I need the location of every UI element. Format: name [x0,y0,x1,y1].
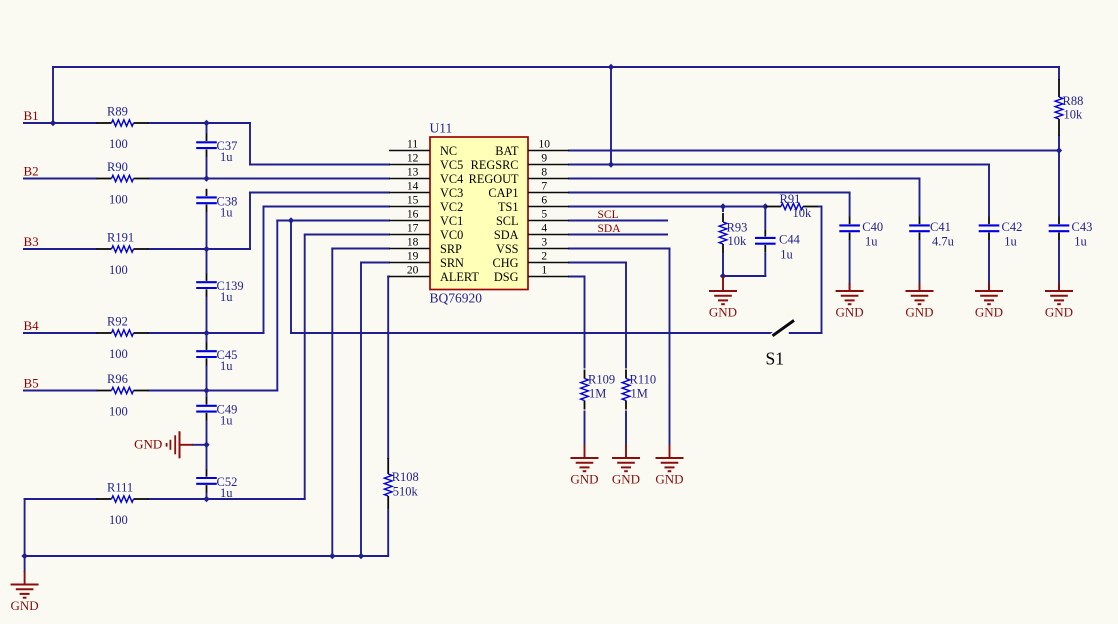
junction VC1/S1 riser [288,217,294,223]
svg-text:R111: R111 [107,481,133,495]
wire REGSRC riser at top x611 [610,66,612,165]
wire C44 top lead from TS1 [764,206,766,230]
svg-text:100: 100 [109,193,128,207]
svg-text:1u: 1u [220,205,233,219]
wire R88 bottom to BAT junction [1058,136,1060,152]
ground under C43 [1045,283,1073,320]
svg-text:10k: 10k [1064,108,1084,122]
resistor R110 (1M) [622,370,656,410]
IC body [430,137,528,290]
capacitor C139 (1u) [196,274,243,305]
ground under C42 [975,283,1003,320]
capacitor C52 (1u) [196,469,237,500]
capacitor C41 (4.7u) [909,217,954,249]
wire B5 to VC1 corner [148,390,279,392]
wire C139-B4 link [206,297,208,334]
pin 2 CHG [528,262,569,264]
svg-text:S1: S1 [766,349,784,369]
junction R93 bottom/C44 bottom [720,273,726,279]
svg-text:SCL: SCL [496,214,519,228]
svg-text:SCL: SCL [598,209,619,221]
svg-text:6: 6 [541,194,547,206]
wire R111 row to VC0 riser [148,498,306,500]
wire SRP row into pin 18 [331,248,390,250]
wire B1 net label stub [23,122,98,124]
wire VC5 riser x250 [249,122,251,165]
svg-text:5: 5 [541,208,547,220]
wire VC3 row into pin 14 [249,192,390,194]
wire C42 bottom to ground [988,240,990,292]
wire C41 bottom to ground [919,240,921,292]
wire bottom ground rail [25,555,390,557]
svg-text:15: 15 [407,194,419,206]
wire VC5 row into pin 12 [249,164,390,166]
junction TS1/C44 [762,203,768,209]
wire R110 to ground [625,411,627,446]
junction B5/C49 [203,387,209,393]
svg-text:100: 100 [109,263,128,277]
svg-text:C41: C41 [930,220,951,234]
svg-text:19: 19 [407,250,419,262]
capacitor C40 (1u) [839,217,883,249]
svg-text:10k: 10k [728,234,748,248]
pin 12 VC5 [389,164,430,166]
power port GND (bar style, left of C52) [134,431,193,458]
svg-text:1M: 1M [589,387,606,401]
wire C37-C38 link [206,157,208,180]
wire R93 junction to C44 bottom [722,275,766,277]
pin 6 TS1 [528,206,569,208]
junction BAT/R88/C43 [1056,147,1062,153]
svg-text:R88: R88 [1063,94,1084,108]
wire VSS drop to ground x669.5 [669,248,671,446]
svg-text:R109: R109 [588,373,615,387]
svg-text:DSG: DSG [494,270,519,284]
wire VC0 row into pin 17 [304,234,390,236]
wire VC3 riser x250 [249,192,251,250]
svg-text:12: 12 [407,152,419,164]
wire C38-B3 link [206,212,208,250]
wire C37 top lead [206,122,208,134]
junction REGSRC row/riser [608,161,614,167]
wire B4-C45 link [206,332,208,343]
pin 11 NC [389,150,430,152]
svg-text:REGSRC: REGSRC [471,158,519,172]
svg-text:1u: 1u [1074,235,1087,249]
wire B3-C139 link [206,248,208,274]
svg-text:REGOUT: REGOUT [469,172,519,186]
wire VSS row pin 3 [568,248,670,250]
wire SCL row pin 5 [568,220,668,222]
svg-text:R89: R89 [107,105,128,119]
svg-text:10: 10 [539,138,551,150]
wire C40 bottom to ground [849,240,851,292]
svg-text:20: 20 [407,264,419,276]
svg-text:14: 14 [407,180,419,192]
svg-text:GND: GND [134,437,162,452]
wire B3 label to R191 [23,248,98,250]
wire BAT row pin 10 to R88 junction [568,150,1060,152]
svg-text:GND: GND [1045,305,1073,320]
svg-text:4.7u: 4.7u [932,235,955,249]
wire ground lead bottom-left [24,556,26,572]
resistor R111 (100) [97,481,149,528]
svg-text:GND: GND [709,305,737,320]
wire VC0 riser x304.7 [304,235,306,500]
wire B4 to VC2 corner [148,332,265,334]
svg-text:18: 18 [407,236,419,248]
svg-text:C40: C40 [862,220,883,234]
svg-text:11: 11 [407,138,418,150]
svg-text:3: 3 [541,236,547,248]
wire VC2 row into pin 15 [263,206,390,208]
svg-text:13: 13 [407,166,419,178]
pin 17 VC0 [389,234,430,236]
svg-text:TS1: TS1 [498,200,519,214]
svg-text:VSS: VSS [496,242,519,256]
wire R93 bottom to junction [722,253,724,277]
wire B1 to C37 and VC5 corner [148,122,251,124]
junction bottom rail left/GND [21,553,27,559]
capacitor C38 (1u) [196,189,237,220]
wire R109 to ground [584,411,586,446]
wire B4 label to R92 [23,332,98,334]
ground under R93 [709,276,737,320]
svg-text:R110: R110 [630,373,657,387]
wire top rail B1 net [52,66,1060,68]
svg-text:VC1: VC1 [440,214,463,228]
svg-text:4: 4 [541,222,547,234]
junction B3/C139 [203,246,209,252]
wire R93 top lead from TS1 [722,206,724,212]
wire SRN drop x361 [360,262,362,556]
pin 8 REGOUT [528,178,569,180]
wire TS1 row R91 right lead to riser [818,206,823,208]
pin 4 SDA [528,234,569,236]
wire C41 top lead [919,178,921,217]
wire GND bar port stub [192,444,207,446]
svg-text:VC0: VC0 [440,228,463,242]
svg-text:R90: R90 [107,160,128,174]
wire SRN row into pin 19 [360,262,390,264]
pin 16 VC1 [389,220,430,222]
svg-text:1u: 1u [220,150,233,164]
wire B5-C49 link [206,390,208,398]
pin 3 VSS [528,248,569,250]
svg-text:BAT: BAT [495,144,519,158]
junction B4/C45 [203,330,209,336]
svg-text:VC4: VC4 [440,172,463,186]
resistor R92 (100) [97,315,149,362]
svg-text:NC: NC [440,144,457,158]
switch S1 (SPST blade) [766,320,795,369]
resistor R90 (100) [97,160,149,207]
wire C44 bottom lead [764,252,766,277]
svg-text:GND: GND [570,472,598,487]
ground under R109 [570,445,598,487]
svg-text:CHG: CHG [493,256,519,270]
wire C45-B5 link [206,366,208,392]
wire C49-GNDbar link [206,420,208,446]
wire R88 top lead from rail [1058,66,1060,80]
svg-text:GND: GND [905,305,933,320]
svg-text:C42: C42 [1002,220,1023,234]
svg-text:R92: R92 [107,315,128,329]
wire CHG drop to R110 [625,262,627,369]
svg-text:B4: B4 [24,318,40,333]
wire CAP1 row pin 7 [568,192,851,194]
wire B5 label to R96 [23,390,98,392]
wire SDA row pin 4 [568,234,668,236]
pin 9 REGSRC [528,164,569,166]
wire C40 top lead [849,192,851,217]
wire TS1 row pin 6 to R93 [568,206,767,208]
resistor R93 (10k) [719,213,747,253]
junction top rail/REGSRC riser [608,64,614,70]
svg-text:SDA: SDA [494,228,519,242]
svg-text:1u: 1u [220,359,233,373]
svg-text:GND: GND [11,598,39,613]
pin 13 VC4 [389,178,430,180]
pin 19 SRN [389,262,430,264]
wire ALERT drop to R108 [387,276,389,459]
wire REGOUT row pin 8 [568,178,920,180]
wire C43 top lead [1058,150,1060,217]
svg-text:1u: 1u [865,235,878,249]
ground under C40 [836,283,864,320]
resistor R108 (510k) [384,458,418,509]
capacitor C42 (1u) [979,217,1023,249]
svg-text:GND: GND [836,305,864,320]
wire DSG row pin 1 [568,276,585,278]
svg-text:100: 100 [109,405,128,419]
wire B1 riser top-left [52,67,54,124]
wire S1 row left segment [290,332,774,334]
svg-text:VC3: VC3 [440,186,463,200]
svg-text:100: 100 [109,347,128,361]
svg-text:B3: B3 [24,234,39,249]
svg-text:ALERT: ALERT [440,270,479,284]
resistor R89 (100) [97,105,149,152]
svg-text:B5: B5 [24,376,39,391]
resistor R109 (1M) [581,370,615,410]
svg-text:GND: GND [655,472,683,487]
svg-text:GND: GND [975,305,1003,320]
pin 1 DSG [528,276,569,278]
junction TS1/R93 [720,203,726,209]
svg-text:SDA: SDA [598,223,622,235]
wire B2/VC4 row to pin 13 [148,178,391,180]
svg-text:B2: B2 [24,164,39,179]
svg-text:1u: 1u [780,248,793,262]
svg-text:7: 7 [541,180,547,192]
svg-text:R96: R96 [107,372,128,386]
wire C52-R111 link [206,492,208,500]
wire C43 bottom to ground [1058,240,1060,292]
svg-text:B1: B1 [24,108,39,123]
junction B1/C37 [203,120,209,126]
resistor R88 (10k) [1055,79,1083,136]
wire S1 to R91 riser x821.5 [821,206,823,334]
svg-text:9: 9 [541,152,547,164]
svg-text:2: 2 [541,250,547,262]
svg-text:1: 1 [541,264,547,276]
wire VC1 row into pin 16 [276,220,390,222]
svg-text:8: 8 [541,166,547,178]
svg-text:VC5: VC5 [440,158,463,172]
svg-text:GND: GND [612,472,640,487]
svg-text:U11: U11 [430,121,453,136]
wire C42 top lead [988,164,990,217]
svg-text:100: 100 [109,513,128,527]
svg-text:SRP: SRP [440,242,462,256]
wire GNDbar-C52 link [206,444,208,470]
wire S1 row right segment [789,332,823,334]
resistor R96 (100) [97,372,149,419]
pin 15 VC2 [389,206,430,208]
svg-text:R191: R191 [107,231,134,245]
svg-text:1u: 1u [1004,235,1017,249]
wire R111 left to GND corner [24,498,98,500]
wire REGSRC row pin 9 [568,164,990,166]
pin 14 VC3 [389,192,430,194]
pin 18 SRP [389,248,430,250]
svg-text:CAP1: CAP1 [488,186,518,200]
svg-text:1u: 1u [220,486,233,500]
resistor R191 (100) [97,231,149,278]
capacitor C43 (1u) [1049,217,1093,249]
pin 20 ALERT [389,276,430,278]
svg-text:VC2: VC2 [440,200,463,214]
wire ALERT row into pin 20 [387,276,390,278]
ground under VSS wire [655,445,683,487]
wire SRP drop x332.3 [331,248,333,556]
junction GND bar/C49/C52 [203,442,209,448]
svg-text:R93: R93 [727,221,748,235]
svg-text:1u: 1u [220,290,233,304]
op-amp/IC U11 BQ76920 [389,121,569,306]
pin 10 BAT [528,150,569,152]
junction SRN/bottom rail [358,553,364,559]
svg-text:10k: 10k [793,206,813,220]
pin 7 CAP1 [528,192,569,194]
svg-text:16: 16 [407,208,419,220]
svg-text:BQ76920: BQ76920 [430,291,483,306]
svg-text:510k: 510k [393,485,419,499]
wire R108 to bottom rail [387,509,389,556]
junction SRP/bottom rail [329,553,335,559]
wire VC2 riser x263.5 [263,206,265,334]
wire B3 to VC3 corner [148,248,251,250]
svg-text:1u: 1u [220,414,233,428]
svg-text:R108: R108 [392,470,419,484]
ground bottom-left [11,571,39,613]
wire S1 riser x291 from VC1 junction [290,221,292,334]
pin 5 SCL [528,220,569,222]
svg-text:17: 17 [407,222,419,234]
svg-text:R91: R91 [780,192,801,206]
capacitor C49 (1u) [196,397,237,428]
ground under R110 [612,445,640,487]
junction B1 riser [50,120,56,126]
capacitor C45 (1u) [196,343,237,374]
resistor R91 (10k) [766,192,818,220]
svg-text:1M: 1M [631,387,648,401]
ground under C41 [905,283,933,320]
svg-text:C43: C43 [1072,220,1093,234]
junction B2/C38 [203,175,209,181]
wire VC1 riser x277.3 [276,220,278,392]
capacitor C44 (1u) [755,229,801,261]
svg-text:100: 100 [109,137,128,151]
capacitor C37 (1u) [196,134,237,165]
wire CHG row pin 2 [568,262,627,264]
wire R111 drop to bottom rail x24.6 [24,498,26,557]
svg-text:SRN: SRN [440,256,464,270]
wire DSG drop to R109 [584,276,586,369]
svg-text:C44: C44 [779,233,801,247]
wire B2 label to R90 [23,178,98,180]
junction R111/C52 [203,496,209,502]
